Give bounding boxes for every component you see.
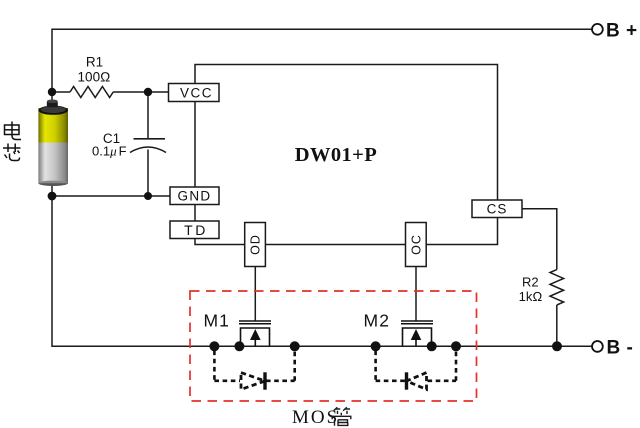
body diode D1 triangle bbox=[241, 373, 265, 390]
label guan (tube) chinese bbox=[332, 407, 352, 426]
pin box TD bbox=[170, 221, 219, 239]
transistor M2 gate plates bbox=[401, 321, 433, 324]
svg-text:CS: CS bbox=[487, 202, 508, 217]
label 100ohm bbox=[78, 70, 111, 85]
battery top terminal knob bbox=[47, 100, 58, 108]
svg-text:R2: R2 bbox=[522, 275, 539, 290]
pin box VCC bbox=[169, 84, 220, 102]
junction dot M2 left bbox=[371, 341, 381, 351]
junction dot M2 source bbox=[427, 341, 437, 351]
terminal circle B+ bbox=[592, 24, 603, 35]
junction dot M1 left bbox=[209, 341, 219, 351]
transistor M1 gate plates bbox=[239, 321, 271, 324]
wire OC gate lead M2 bbox=[415, 267, 417, 322]
svg-text:M1: M1 bbox=[204, 311, 230, 331]
junction dot C1 bottom / GND bbox=[144, 192, 152, 200]
svg-text:M2: M2 bbox=[364, 311, 391, 331]
label R1 bbox=[86, 55, 103, 70]
label R2 bbox=[522, 275, 539, 290]
junction dot battery plus / R1 bbox=[48, 88, 56, 96]
svg-text:B +: B + bbox=[606, 20, 638, 41]
wire R2 bottom lead bbox=[556, 305, 558, 346]
resistor R1 zigzag bbox=[70, 87, 113, 98]
terminal circle B- bbox=[592, 341, 603, 352]
wire OD gate lead M1 bbox=[254, 267, 256, 322]
svg-text:0.1μF: 0.1μF bbox=[92, 144, 127, 159]
body diode D2 cathode bar bbox=[405, 372, 408, 389]
svg-text:OC: OC bbox=[409, 234, 423, 255]
svg-text:1kΩ: 1kΩ bbox=[519, 289, 543, 304]
pin box CS bbox=[472, 200, 522, 218]
svg-text:TD: TD bbox=[184, 222, 208, 238]
transistor M2 channel bbox=[403, 328, 432, 346]
label MOS (serif) bbox=[292, 407, 339, 428]
junction dot M1 right bbox=[290, 341, 300, 351]
wire R1 right lead to VCC bbox=[113, 91, 168, 93]
svg-text:GND: GND bbox=[178, 189, 212, 204]
pin box OC bbox=[406, 223, 427, 267]
junction dot M1 source bbox=[234, 341, 244, 351]
junction dot battery minus bbox=[48, 192, 57, 201]
body diode D1 cathode bar bbox=[263, 372, 266, 389]
label M1 bbox=[204, 311, 230, 331]
wire top rail B+ bbox=[52, 29, 592, 92]
wire R1 left lead bbox=[52, 91, 70, 93]
svg-text:DW01+P: DW01+P bbox=[295, 144, 377, 166]
svg-text:VCC: VCC bbox=[180, 85, 213, 100]
battery cell body yellow section bbox=[38, 108, 68, 143]
label 1kohm bbox=[519, 289, 543, 304]
pin box GND bbox=[170, 187, 219, 205]
svg-text:R1: R1 bbox=[86, 55, 103, 70]
svg-text:OD: OD bbox=[249, 234, 263, 255]
body diode loop M2 dashed bbox=[376, 351, 456, 381]
junction dot M2 right bbox=[451, 341, 461, 351]
label dianxin (battery cell) chinese bbox=[3, 122, 21, 161]
resistor R2 zigzag bbox=[550, 270, 564, 305]
capacitor C1 leads bbox=[147, 92, 149, 196]
transistor M2 arrow bbox=[411, 329, 422, 346]
label B+ bbox=[606, 20, 638, 41]
battery top rim bbox=[38, 106, 68, 115]
wire battery negative to GND bbox=[52, 195, 170, 197]
body diode D2 triangle bbox=[407, 373, 427, 390]
capacitor C1 curved plate bbox=[130, 147, 166, 153]
transistor M1 channel bbox=[241, 328, 270, 346]
label DW01+P bbox=[295, 144, 377, 166]
junction dot R2 bottom bbox=[552, 341, 562, 351]
battery bottom cap bbox=[38, 181, 68, 186]
body diode loop M1 dashed bbox=[214, 351, 294, 381]
transistor M1 arrow bbox=[250, 329, 261, 346]
label 0.1uF bbox=[92, 144, 127, 159]
pin box OD bbox=[245, 223, 266, 267]
svg-text:B -: B - bbox=[607, 337, 634, 358]
wire battery top lead bbox=[51, 92, 53, 102]
capacitor C1 top plate bbox=[134, 138, 166, 140]
label M2 bbox=[364, 311, 391, 331]
label B- bbox=[607, 337, 634, 358]
junction dot C1 top / VCC bbox=[144, 88, 152, 96]
wire CS to R2 bbox=[522, 209, 557, 270]
red dashed MOS box bbox=[190, 291, 477, 401]
svg-text:100Ω: 100Ω bbox=[78, 70, 111, 85]
wire battery negative to bottom rail B- bbox=[52, 185, 592, 346]
chip DW01+P outline U1 bbox=[195, 65, 498, 245]
label C1 bbox=[103, 131, 120, 146]
battery cell body gray section bbox=[38, 143, 68, 184]
